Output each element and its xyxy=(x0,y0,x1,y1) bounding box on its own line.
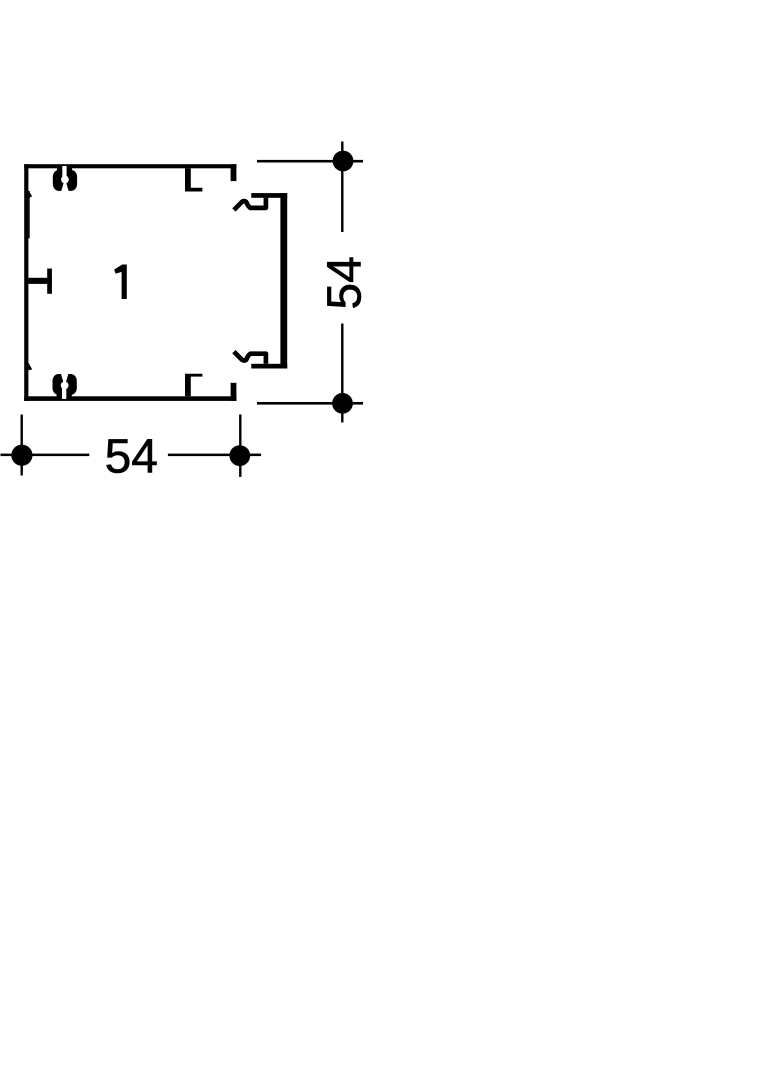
bottom-right mouth lip xyxy=(231,383,237,401)
trunking body bottom wall xyxy=(24,396,236,401)
trunking body left wall xyxy=(24,164,28,401)
cover top snap hook xyxy=(234,198,266,210)
cover right wall xyxy=(280,193,287,368)
left wall T-stud stem xyxy=(28,278,52,284)
svg-text:54: 54 xyxy=(105,430,158,483)
left wall T-stud crossbar xyxy=(47,269,52,294)
height dimension top dot xyxy=(333,151,354,172)
cover top flange xyxy=(251,193,287,198)
height dimension extension line bottom xyxy=(257,402,363,405)
left wall top rib xyxy=(28,191,29,238)
width dimension line left segment xyxy=(1,454,90,457)
width dimension extension line right xyxy=(239,415,241,477)
width dimension right dot xyxy=(229,445,250,466)
width dimension line right segment xyxy=(168,454,261,457)
top screw boss xyxy=(53,166,77,192)
top-right mouth lip xyxy=(231,164,237,181)
width dimension left dot xyxy=(11,445,32,466)
bottom screw boss xyxy=(53,373,77,399)
height dimension line upper segment xyxy=(341,142,343,233)
compartment label 1 xyxy=(114,265,127,300)
left wall top rib wedge xyxy=(28,190,32,198)
svg-text:54: 54 xyxy=(318,256,371,309)
bottom inner cover retainer xyxy=(185,374,202,397)
left wall bottom wedge xyxy=(28,363,32,371)
cover bottom snap hook xyxy=(234,352,266,364)
cover bottom flange xyxy=(251,364,287,369)
trunking body top wall xyxy=(24,164,236,168)
top inner cover retainer xyxy=(185,168,202,191)
width dimension extension line left xyxy=(21,415,23,476)
height dimension line lower segment xyxy=(341,324,343,423)
height dimension extension line top xyxy=(257,160,363,163)
height dimension bottom dot xyxy=(332,393,353,414)
